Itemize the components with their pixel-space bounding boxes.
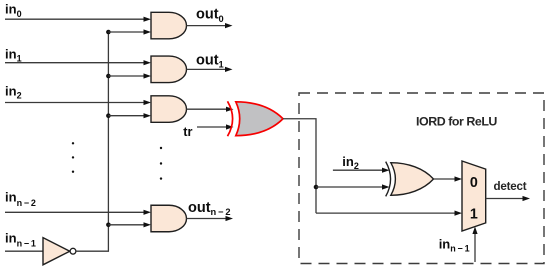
wire mux select in_n-1 [472,227,477,263]
ellipsis dots left column [72,142,74,173]
svg-text:tr: tr [183,124,192,139]
svg-text:inn − 1: inn − 1 [439,237,470,254]
AND gate U3 [151,96,187,123]
multiplexer M1 [462,161,486,231]
AND gate U2 [151,56,187,83]
wire tr [197,124,234,129]
wire in_n-2 [5,210,151,215]
node bus tap 4 [106,223,111,228]
wire bus to U2 input 2 [108,73,151,78]
wire inner in_2 to XOR G2 input 1 [333,168,390,173]
svg-text:out1: out1 [196,52,224,69]
svg-text:in0: in0 [5,2,22,19]
wire branch to XOR G2 input 2 [316,184,390,189]
wire in_1 [5,60,151,65]
ellipsis dots middle column [160,147,162,180]
AND gate U4 [151,205,187,232]
wire in_0 [5,17,151,22]
wire detect [486,196,530,201]
node G1 branch [314,185,319,190]
XOR gate G1 (red) [228,101,284,136]
svg-text:in2: in2 [342,154,359,171]
svg-text:1: 1 [470,207,478,223]
dashed box IORD for ReLU [299,93,544,264]
svg-text:outn − 2: outn − 2 [188,200,231,217]
wire G2 output to mux input 0 [434,176,463,181]
wire inverter output to bus [76,32,108,251]
svg-text:0: 0 [470,175,478,191]
svg-text:in1: in1 [5,46,22,63]
wire lower branch to mux input 1 [316,211,462,216]
svg-text:inn − 1: inn − 1 [5,230,36,248]
wire in_2 [5,100,151,105]
node bus tap 1 [106,30,111,35]
wire in_n-1 to inverter [5,250,43,252]
wire U3 output to XOR G1 [187,107,234,112]
inverter U5 (NOT gate) [43,238,76,265]
svg-text:detect: detect [494,180,527,193]
wire out_0 [187,23,233,28]
svg-text:IORD for ReLU: IORD for ReLU [416,115,497,129]
XOR gate G2 [386,162,434,197]
svg-text:in2: in2 [5,83,22,100]
svg-text:inn − 2: inn − 2 [5,190,36,208]
node bus tap 2 [106,74,111,79]
wire out_1 [187,67,233,72]
svg-text:out0: out0 [196,7,224,24]
wire out_n-2 [187,216,234,221]
AND gate U1 [151,12,187,38]
wire bus to U3 input 2 [108,113,151,118]
wire G1 output into IORD box [283,119,316,213]
node bus tap 3 [106,113,111,118]
wire bus to U4 input 2 [108,222,151,227]
wire bus to U1 input 2 [108,29,151,34]
